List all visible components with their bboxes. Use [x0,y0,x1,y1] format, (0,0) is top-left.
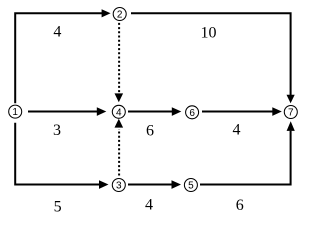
node 2 [113,8,126,21]
svg-text:7: 7 [288,108,294,119]
svg-text:6: 6 [236,197,244,214]
svg-text:4: 4 [233,121,241,138]
svg-text:10: 10 [201,25,217,42]
wire edge 3-5 [128,180,181,189]
wire edge 3-4 (dotted dummy, up arrow) [115,119,124,176]
svg-text:6: 6 [146,122,154,139]
svg-text:6: 6 [189,108,195,119]
wire edge 2-4 (dotted dummy, down arrow) [115,23,124,102]
svg-text:3: 3 [116,181,122,192]
svg-text:4: 4 [145,197,153,214]
svg-text:5: 5 [54,198,62,214]
wire edge 1-2 (elbow up-right) [15,9,110,103]
svg-text:2: 2 [117,10,123,21]
svg-text:1: 1 [12,107,18,118]
node 1 [9,105,22,118]
svg-text:4: 4 [53,23,61,40]
wire edge 2-7 (right then down) [131,13,295,103]
wire edge 6-7 [202,107,282,116]
node 4 [112,105,125,118]
wire edge 1-3 (down then right) [15,123,108,189]
svg-text:5: 5 [188,181,194,192]
node 6 [186,106,199,119]
node 3 [112,179,125,192]
node 5 [184,179,197,192]
svg-text:4: 4 [116,107,122,118]
svg-text:3: 3 [53,122,61,139]
wire edge 4-6 [128,107,181,116]
node 7 [284,106,297,119]
wire edge 5-7 (right then up) [200,121,295,184]
wire edge 1-4 [28,107,106,116]
